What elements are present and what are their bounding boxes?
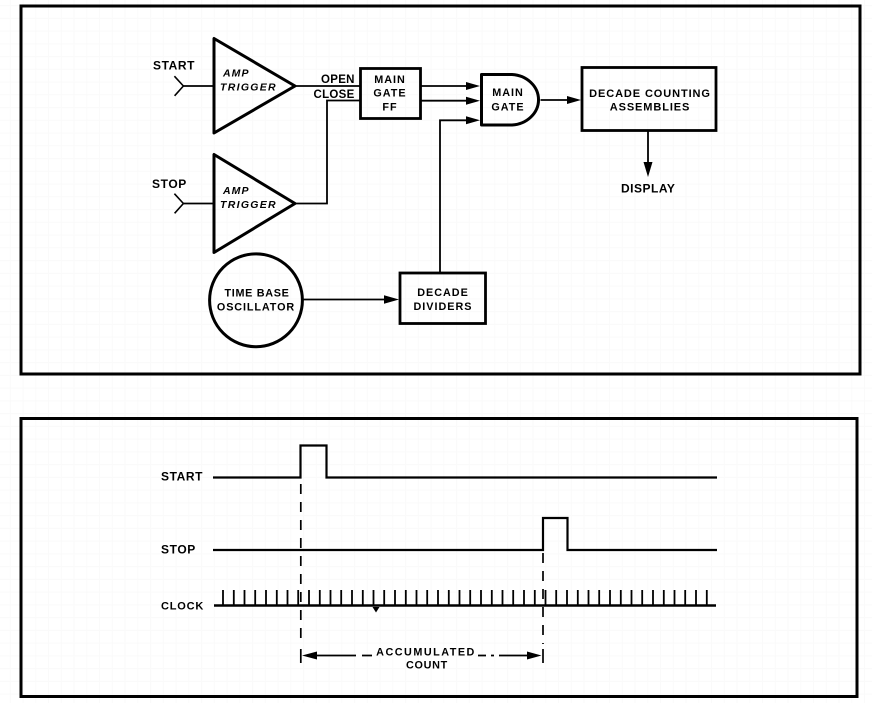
svg-text:ACCUMULATED: ACCUMULATED: [376, 647, 476, 659]
svg-text:MAIN: MAIN: [374, 74, 406, 86]
svg-text:ASSEMBLIES: ASSEMBLIES: [610, 102, 691, 114]
svg-text:TIME BASE: TIME BASE: [224, 287, 289, 299]
dashed marker at stop edge: [542, 553, 544, 644]
wire STOP input to amp A2: [183, 203, 214, 205]
wire FF output 2 to main gate: [421, 100, 468, 102]
wire amp A2 output to Main Gate FF (CLOSE line): [295, 101, 360, 204]
svg-text:STOP: STOP: [161, 543, 196, 557]
svg-text:FF: FF: [382, 102, 397, 114]
block decade counting assemblies: [582, 68, 716, 131]
svg-text:OPEN: OPEN: [321, 74, 355, 86]
svg-text:MAIN: MAIN: [492, 87, 524, 99]
wire decade dividers to main gate: [440, 120, 468, 272]
svg-text:CLOCK: CLOCK: [161, 601, 204, 613]
wire main gate to decade counting assemblies: [541, 99, 569, 101]
svg-text:START: START: [161, 470, 203, 484]
svg-text:GATE: GATE: [491, 102, 524, 114]
and-gate U2 MAIN GATE: [482, 75, 539, 126]
svg-text:COUNT: COUNT: [406, 660, 448, 672]
START waveform with pulse: [213, 446, 717, 478]
flip-flop U1 MAIN GATE FF: [361, 69, 421, 119]
svg-text:START: START: [153, 59, 195, 73]
svg-text:AMP: AMP: [222, 185, 250, 197]
STOP waveform with pulse: [213, 518, 717, 550]
svg-text:OSCILLATOR: OSCILLATOR: [217, 302, 295, 314]
CLOCK waveform baseline: [214, 604, 716, 606]
svg-text:DIVIDERS: DIVIDERS: [414, 301, 473, 313]
CLOCK waveform ticks: [223, 590, 707, 605]
wire decade counting assemblies to display: [647, 131, 649, 163]
wire amp A1 output to Main Gate FF (OPEN line): [295, 85, 360, 87]
marker dot below clock baseline: [373, 607, 380, 613]
svg-text:TRIGGER: TRIGGER: [220, 199, 277, 211]
wire oscillator to decade dividers: [303, 299, 387, 301]
dashed marker at start edge: [300, 484, 302, 644]
svg-text:DISPLAY: DISPLAY: [621, 182, 675, 196]
START input terminal: [174, 76, 183, 96]
svg-text:CLOSE: CLOSE: [314, 89, 355, 101]
svg-text:DECADE COUNTING: DECADE COUNTING: [589, 88, 711, 100]
amp/trigger A1 (START): [214, 39, 295, 134]
wire START input to amp A1: [183, 85, 214, 87]
accumulated count arrow right: [478, 652, 542, 660]
svg-text:DECADE: DECADE: [417, 287, 469, 299]
block decade dividers: [400, 273, 486, 324]
wire FF output 1 to main gate: [421, 85, 468, 87]
svg-text:TRIGGER: TRIGGER: [220, 82, 277, 94]
accumulated count arrow left: [302, 652, 372, 660]
svg-text:AMP: AMP: [222, 68, 250, 80]
svg-text:GATE: GATE: [373, 88, 406, 100]
STOP input terminal: [174, 194, 183, 214]
oscillator G1 TIME BASE OSCILLATOR: [210, 254, 303, 347]
svg-text:STOP: STOP: [152, 177, 187, 191]
amp/trigger A2 (STOP): [214, 155, 295, 253]
